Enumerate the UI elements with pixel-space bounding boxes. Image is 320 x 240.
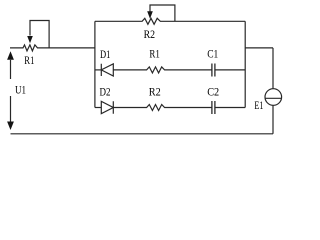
wire branch D1 left xyxy=(95,69,101,71)
wire input terminal upper shaft xyxy=(10,60,12,79)
wire bottom xyxy=(11,133,274,135)
arrowhead R1 wiper xyxy=(27,36,33,43)
source E1 chord xyxy=(265,97,282,99)
wire right link to E1 xyxy=(245,47,273,49)
wire E1 vertical bottom xyxy=(272,106,274,134)
source E1 circle xyxy=(265,89,282,106)
svg-text:C2: C2 xyxy=(207,85,219,99)
wire box top edge with resistor R2 (variable) xyxy=(95,18,245,24)
svg-text:E1: E1 xyxy=(254,98,263,112)
svg-text:C1: C1 xyxy=(207,47,218,61)
svg-text:U1: U1 xyxy=(15,83,26,97)
wire branch D2 middle with resistor R2 (inner) xyxy=(113,105,212,111)
svg-text:R2: R2 xyxy=(149,85,161,99)
diode D2 xyxy=(101,101,113,113)
wire input terminal lower shaft xyxy=(10,96,12,122)
capacitor C1 xyxy=(212,64,215,77)
svg-text:R2: R2 xyxy=(144,27,156,41)
svg-text:R1: R1 xyxy=(149,47,160,61)
capacitor C2 xyxy=(212,101,215,114)
wire E1 vertical top xyxy=(272,48,274,89)
wire R1 wiper loop xyxy=(30,21,49,48)
svg-text:D2: D2 xyxy=(100,85,111,99)
svg-text:R1: R1 xyxy=(24,53,34,67)
wire box right edge xyxy=(244,21,246,107)
wire top-left with resistor R1 (variable) xyxy=(10,45,95,51)
svg-text:D1: D1 xyxy=(100,47,110,61)
wire branch D1 middle with resistor R1 (inner) xyxy=(113,67,212,73)
wire branch D2 left xyxy=(95,107,101,109)
arrowhead input up xyxy=(7,51,14,60)
wire branch D1 right xyxy=(215,69,245,71)
wire branch D2 right xyxy=(215,107,245,109)
wire box left edge xyxy=(94,21,96,107)
arrowhead input down xyxy=(7,122,14,131)
diode D1 xyxy=(101,64,113,76)
arrowhead R2 wiper xyxy=(147,11,153,19)
wire R2 wiper loop xyxy=(150,5,175,21)
